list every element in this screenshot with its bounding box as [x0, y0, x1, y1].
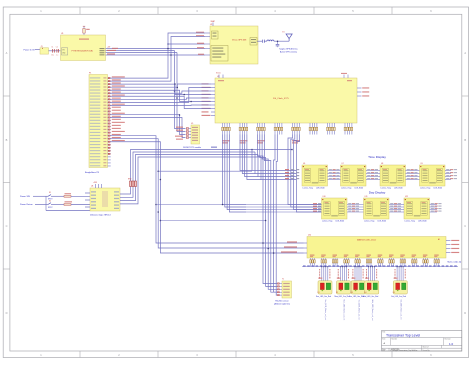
svg-text:U1: U1	[61, 33, 63, 35]
wire	[35, 49, 40, 51]
svg-text:U9: U9	[421, 163, 423, 165]
light sensor U15	[282, 279, 292, 298]
MCU pin stubs with series resistors	[108, 77, 111, 166]
time display interconnect wires	[328, 169, 458, 180]
wire	[33, 196, 90, 210]
GPS left pin stubs	[205, 33, 210, 55]
switch S1 SPDT	[48, 192, 58, 200]
day feed wires into first digit	[246, 205, 322, 213]
svg-text:Sun_LED_Matrix_col_net: Sun_LED_Matrix_col_net	[324, 300, 327, 321]
svg-text:DS1307 RTC module: DS1307 RTC module	[183, 147, 201, 149]
svg-text:Lumex_7seg: Lumex_7seg	[364, 221, 374, 223]
svg-text:Power SW: Power SW	[20, 195, 30, 198]
LED pair D7 D8	[364, 266, 379, 294]
svg-text:Lumex_7seg: Lumex_7seg	[405, 221, 415, 223]
wire 3V3 branch to GPS	[167, 43, 205, 45]
svg-text:U6: U6	[303, 163, 305, 165]
svg-text:1.0: 1.0	[449, 342, 454, 346]
svg-text:+3V3: +3V3	[93, 182, 97, 184]
clock IC top pin	[216, 73, 348, 78]
LED pair D1 D2	[318, 266, 333, 294]
svg-text:.1u: .1u	[56, 55, 58, 57]
day display left feed labels	[313, 203, 321, 212]
svg-text:Lumex_7seg: Lumex_7seg	[303, 188, 313, 190]
svg-text:VIN: VIN	[62, 50, 64, 52]
matrix bottom column drivers	[310, 255, 440, 267]
svg-text:U10: U10	[323, 196, 326, 198]
svg-text:Tue_LED_Matrix_col_net: Tue_LED_Matrix_col_net	[357, 300, 360, 321]
svg-text:E1: E1	[283, 32, 285, 34]
svg-text:Venus GPS 638: Venus GPS 638	[232, 40, 247, 42]
switch S2 SPDT	[48, 200, 58, 208]
RTC pin labels	[175, 127, 183, 140]
matrix right pins	[446, 240, 459, 253]
svg-text:Active GPS antenna: Active GPS antenna	[280, 51, 298, 54]
svg-text:Mon_LED_Grn_Red: Mon_LED_Grn_Red	[335, 295, 350, 298]
svg-text:Power In 5V: Power In 5V	[24, 48, 36, 51]
clock IC left pin labels	[202, 83, 216, 116]
svg-text:LDS_8140: LDS_8140	[355, 188, 364, 190]
wire to antenna	[274, 40, 289, 42]
antenna E1	[283, 32, 293, 42]
svg-text:U5: U5	[191, 123, 193, 125]
svg-text:C1: C1	[51, 46, 53, 48]
U4 top pins	[93, 182, 102, 188]
caption under U12	[405, 221, 427, 223]
wire bundle group2 to time display feed	[240, 135, 261, 180]
svg-text:D5: D5	[393, 292, 395, 294]
svg-text:VCC5: VCC5	[216, 73, 221, 75]
wire +5V to GPS	[120, 48, 205, 50]
sensor caption	[274, 299, 290, 305]
U4 left pins	[85, 193, 90, 207]
day display digit U11	[364, 196, 390, 219]
svg-text:B: B	[464, 138, 466, 142]
vertical rail 3V3 down to RTC	[175, 51, 186, 129]
U4 right pin wires rising to bus rows	[120, 150, 261, 204]
svg-text:S1: S1	[49, 192, 51, 194]
LED pair D9 D10	[393, 266, 408, 294]
LED pair D5 D6	[351, 266, 366, 294]
svg-text:D3: D3	[351, 292, 353, 294]
resistor R10	[58, 193, 90, 197]
svg-text:U12: U12	[405, 196, 408, 198]
svg-text:Revision: Revision	[445, 339, 451, 341]
svg-text:Size: Size	[382, 339, 385, 341]
inductor L1 on RF line	[267, 40, 274, 41]
svg-text:D2: D2	[336, 292, 338, 294]
svg-text:File: File	[382, 350, 385, 352]
wire 3V3 rail	[120, 50, 175, 52]
capacitor C6 to ground	[276, 40, 280, 47]
power switch logic IC U4	[90, 186, 120, 211]
svg-text:LDS_8140: LDS_8140	[336, 221, 345, 223]
matrix left pin labels	[281, 241, 307, 253]
LED matrix driver U14	[307, 234, 446, 258]
svg-text:D4: D4	[364, 292, 366, 294]
svg-text:P1: P1	[89, 72, 91, 74]
GPS top pin	[211, 20, 215, 26]
wire stair rows to time display 1	[252, 150, 297, 180]
vertical rail SDA to RTC	[110, 117, 185, 137]
svg-text:U8: U8	[381, 163, 383, 165]
MCU pin net labels	[112, 76, 125, 141]
svg-text:LDS_8140: LDS_8140	[434, 188, 443, 190]
svg-text:D1: D1	[318, 292, 320, 294]
svg-text:S2: S2	[49, 200, 51, 202]
LED pair D3 D4	[336, 266, 351, 294]
svg-text:Lumex_7seg: Lumex_7seg	[322, 221, 332, 223]
svg-text:Number: Number	[392, 339, 398, 341]
svg-text:Transceiver Top Level: Transceiver Top Level	[386, 334, 420, 338]
time display digit U7	[341, 163, 367, 186]
svg-text:U14: U14	[308, 234, 311, 236]
svg-text:U11: U11	[365, 196, 368, 198]
resistor R11	[58, 201, 90, 205]
matrix column net labels	[303, 261, 461, 267]
net labels +5V +3V3 GND	[107, 47, 118, 55]
vertical rail SCL to RTC	[110, 114, 185, 134]
wire	[49, 50, 61, 52]
clock driver IC U3	[215, 76, 357, 123]
capacitor C5 on RF line	[263, 40, 267, 43]
svg-text:C: C	[6, 224, 8, 228]
svg-text:U2: U2	[210, 24, 212, 26]
wire bundle group5 jog to day display	[288, 135, 322, 213]
sensor pin resistors	[277, 283, 282, 296]
caption under U8	[381, 188, 403, 190]
clock IC right pins	[357, 87, 369, 96]
capacitor C2	[56, 46, 59, 56]
svg-text:(Ambient Light I2C): (Ambient Light I2C)	[274, 302, 290, 305]
caption under U7	[341, 188, 363, 190]
red net labels under clock IC	[222, 140, 300, 143]
matrix column bus wire	[302, 266, 458, 268]
svg-text:LDS_8140: LDS_8140	[394, 188, 403, 190]
wire bundle group3-4 long vertical bus	[258, 135, 278, 296]
MCU header P1 BeagleBone	[89, 72, 108, 167]
time display digit U8	[380, 163, 406, 186]
svg-text:Debounce logic 74HC14: Debounce logic 74HC14	[90, 215, 111, 217]
caption under U9	[420, 188, 442, 190]
svg-text:DS_Clock_IC75: DS_Clock_IC75	[273, 98, 289, 100]
svg-text:Sat_LED_Grn_Red: Sat_LED_Grn_Red	[391, 295, 406, 298]
resistor R1 above regulator	[83, 26, 90, 35]
svg-text:LDS_8140: LDS_8140	[316, 188, 325, 190]
svg-text:GND: GND	[62, 53, 65, 55]
junction dots serial column	[167, 48, 180, 116]
vertical rail VBAT down to RTC	[177, 53, 186, 132]
wire bundle group1 to day display feed	[223, 135, 247, 213]
time display digit U6	[302, 163, 328, 186]
branch wires from left verticals	[156, 171, 266, 221]
svg-text:VBAT: VBAT	[211, 20, 215, 23]
time display left feed labels	[285, 169, 299, 179]
svg-text:Day Display: Day Display	[369, 191, 386, 195]
svg-text:J1: J1	[41, 46, 43, 48]
svg-text:Power Return: Power Return	[20, 203, 34, 206]
RTC module U5	[191, 123, 200, 144]
svg-text:Lumex_7seg: Lumex_7seg	[420, 188, 430, 190]
svg-text:Lumex_7seg: Lumex_7seg	[381, 188, 391, 190]
time display digit U9	[420, 163, 446, 186]
RTC pin resistors	[186, 128, 191, 139]
junction dots on left verticals	[155, 170, 274, 253]
svg-text:Matrix_Col[0..11]: Matrix_Col[0..11]	[448, 261, 462, 264]
wire top power row extension	[211, 147, 293, 151]
junction dots column	[174, 83, 192, 102]
svg-text:LDS_8140: LDS_8140	[378, 221, 387, 223]
clock IC bottom pin groups with resistor packs	[222, 123, 353, 135]
day display digit U12	[404, 196, 430, 219]
svg-text:Drawn By:: Drawn By:	[423, 350, 431, 352]
svg-text:SPDT: SPDT	[48, 207, 53, 209]
voltage regulator U1 PT78ST105	[61, 33, 106, 60]
svg-text:Wed_LED_Matrix_col_net: Wed_LED_Matrix_col_net	[371, 300, 374, 321]
svg-text:A: A	[464, 51, 466, 55]
svg-text:PT78 REGULATOR 5VA: PT78 REGULATOR 5VA	[72, 49, 94, 52]
wire MCU to matrix row bundle	[110, 136, 303, 253]
svg-text:Y1: Y1	[282, 279, 284, 281]
capacitor C1	[51, 46, 54, 56]
svg-text:LDS_8140: LDS_8140	[418, 221, 427, 223]
GPS RF output wire	[257, 40, 262, 42]
svg-text:RN2: RN2	[128, 179, 131, 181]
svg-text:Lumex_7seg: Lumex_7seg	[341, 188, 351, 190]
svg-text:B: B	[6, 138, 8, 142]
wire UART RX to GPS	[110, 37, 205, 82]
svg-text:MAX7219_LED_Driver: MAX7219_LED_Driver	[357, 239, 376, 242]
caption under U10	[322, 221, 344, 223]
day display interconnect wires	[347, 203, 442, 212]
svg-text:D: D	[6, 311, 8, 315]
svg-text:Sun_LED_Grn_Red: Sun_LED_Grn_Red	[316, 295, 331, 298]
svg-text:C: C	[464, 224, 466, 228]
wire GND to GPS	[120, 54, 205, 56]
GPS module U2	[210, 24, 258, 64]
wires MCU to clock IC	[110, 84, 211, 109]
regulator output wires	[106, 49, 121, 56]
svg-text:Wed_LED_Grn_Red: Wed_LED_Grn_Red	[363, 295, 379, 298]
pull-up resistor pack RN2	[128, 179, 137, 187]
wire UART TX to GPS	[110, 33, 205, 78]
svg-text:C:\Designs\Transceiver_Top.Sch: C:\Designs\Transceiver_Top.SchDoc	[390, 349, 418, 352]
caption under U11	[364, 221, 386, 223]
svg-text:BeagleBone P8: BeagleBone P8	[85, 172, 100, 174]
title block	[382, 331, 462, 352]
svg-text:A: A	[6, 51, 8, 55]
svg-text:TSL2561 sensor: TSL2561 sensor	[275, 299, 289, 302]
svg-text:Sat_LED_Matrix_col_net: Sat_LED_Matrix_col_net	[400, 300, 403, 320]
svg-text:U7: U7	[342, 163, 344, 165]
connector J1	[40, 46, 49, 54]
svg-text:10u: 10u	[51, 55, 54, 57]
day display digit U10	[322, 196, 348, 219]
svg-text:Taoglas GPS Antenna: Taoglas GPS Antenna	[279, 48, 298, 51]
caption under U6	[303, 188, 325, 190]
antenna caption	[279, 48, 298, 54]
GPS pin net labels	[196, 32, 204, 55]
svg-text:D: D	[464, 311, 466, 315]
wire VBAT rail	[120, 52, 177, 54]
svg-text:Mon_LED_Matrix_col_net: Mon_LED_Matrix_col_net	[343, 300, 346, 321]
svg-text:C2: C2	[56, 46, 58, 48]
svg-text:U4: U4	[91, 186, 93, 188]
svg-text:Time Display: Time Display	[368, 155, 386, 159]
